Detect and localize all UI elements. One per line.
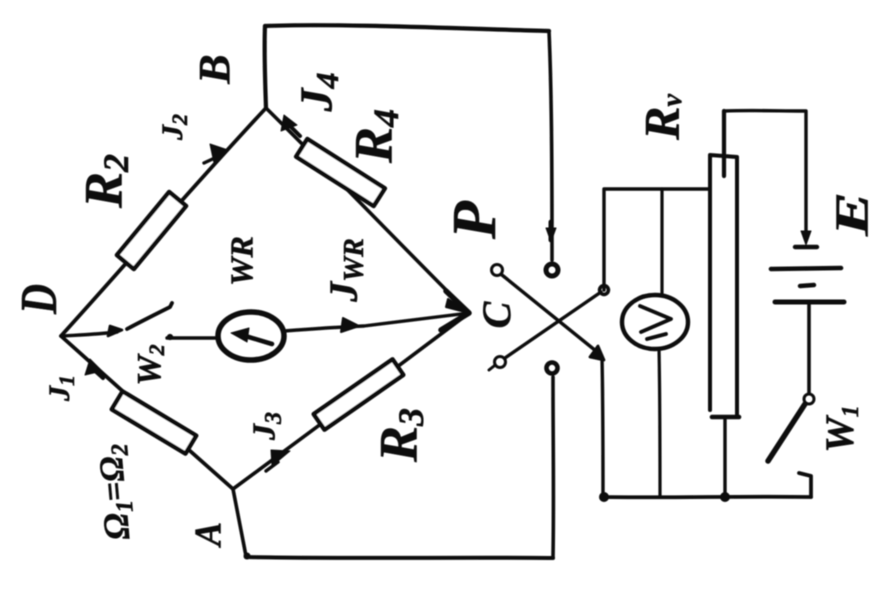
svg-text:B: B bbox=[190, 54, 239, 84]
battery plate 2 bbox=[775, 300, 844, 305]
arrow down on right drop bbox=[549, 222, 554, 240]
needle of WR bbox=[242, 335, 272, 344]
wire P to Rv net (upper vertical) bbox=[604, 189, 709, 290]
junction dot mid bbox=[721, 493, 730, 502]
wire B to D arm bbox=[61, 108, 266, 336]
voltmeter V bbox=[622, 295, 688, 349]
wire B to C arm bbox=[266, 108, 469, 313]
wire B riser to top bbox=[265, 26, 266, 108]
rheostat rectangle bbox=[710, 155, 737, 416]
resistor R3 bbox=[314, 359, 404, 429]
svg-text:WR: WR bbox=[223, 236, 259, 286]
terminal T1 (top middle of P) bbox=[546, 264, 558, 276]
arrow J4 bbox=[287, 123, 300, 136]
terminal T2 (bottom middle of P) bbox=[547, 363, 558, 374]
wire bottom riser to P terminal bbox=[551, 377, 555, 558]
junction dot left bbox=[600, 493, 609, 502]
switch W1 pivot bbox=[804, 394, 814, 404]
wire WR to C with arrow JWR bbox=[284, 313, 469, 331]
svg-text:D: D bbox=[11, 284, 68, 315]
V glyph bbox=[640, 306, 671, 332]
switch P cross wire 1 bbox=[502, 275, 596, 351]
wire A to C arm bbox=[233, 313, 469, 489]
switch W2 lever bbox=[127, 303, 172, 329]
arrow J1 bbox=[93, 369, 103, 378]
rheostat top tap bbox=[722, 111, 726, 176]
battery minus dash bbox=[800, 285, 814, 286]
wire D to A arm bbox=[61, 336, 233, 489]
wire top to battery bbox=[724, 111, 806, 240]
wire A drop bbox=[233, 489, 246, 556]
battery plate long bbox=[771, 268, 841, 269]
rheostat bottom stub bbox=[723, 417, 726, 497]
arrow J3 bbox=[266, 462, 278, 471]
switch W1 lever bbox=[768, 404, 805, 461]
wire top horizontal bbox=[265, 25, 549, 31]
wire bottom horizontal bbox=[246, 557, 553, 558]
wire right drop to P terminal bbox=[549, 31, 552, 260]
wire bottom right horizontal bbox=[604, 495, 811, 499]
svg-text:P: P bbox=[441, 200, 509, 240]
svg-text:A: A bbox=[188, 522, 230, 548]
wire P to bottom net (lower vertical) bbox=[602, 357, 603, 497]
svg-text:E: E bbox=[826, 192, 879, 237]
switch W1 contact bbox=[799, 473, 811, 497]
switch P cross wire 2 bbox=[505, 292, 601, 358]
arrow into battery bbox=[801, 231, 811, 245]
wire V top bbox=[660, 189, 663, 295]
wire to galvanometer bbox=[167, 336, 219, 339]
arrow J2 bbox=[204, 156, 219, 163]
switch P terminal BL bbox=[495, 357, 506, 368]
wire battery to switch W1 bbox=[807, 302, 811, 393]
resistor R4 bbox=[296, 139, 385, 206]
wire D stub to switch W2 bbox=[64, 332, 117, 336]
svg-text:C: C bbox=[474, 300, 519, 328]
galvanometer WR bbox=[218, 312, 284, 360]
wire V bottom bbox=[659, 349, 660, 497]
resistor R2 bbox=[117, 192, 186, 269]
resistor R1 bbox=[112, 391, 197, 453]
switch P terminal TL bbox=[492, 265, 503, 276]
